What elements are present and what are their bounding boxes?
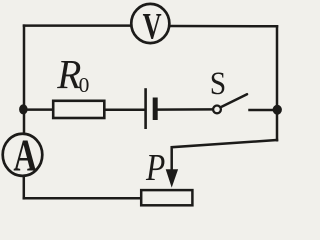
voltmeter circle <box>131 4 169 43</box>
junction dot left <box>19 104 28 114</box>
battery short thick plate <box>153 98 158 121</box>
wire R0 to battery <box>105 109 144 112</box>
wire bottom right sloped <box>172 140 277 172</box>
rheostat wiper arrowhead <box>166 169 178 187</box>
svg-text:V: V <box>143 5 162 47</box>
wire bottom horizontal <box>24 197 141 200</box>
wire right rail vertical <box>276 26 279 140</box>
switch lever <box>221 94 247 107</box>
junction dot right <box>273 105 282 115</box>
svg-text:P: P <box>145 146 165 188</box>
ammeter circle <box>3 134 43 176</box>
circuit schematic: voltmeter, R0, battery, switch S, ammeter, rheostat P <box>0 0 283 211</box>
wire left rail vertical <box>23 26 26 134</box>
svg-text:S: S <box>210 65 226 102</box>
svg-text:0: 0 <box>79 73 90 97</box>
resistor R0 box <box>53 101 104 118</box>
wire top left horizontal <box>24 24 131 27</box>
wire switch to right junction <box>250 109 278 112</box>
svg-text:A: A <box>13 130 37 180</box>
wire middle row: junction to R0 <box>24 108 54 111</box>
wire top right horizontal <box>171 25 277 28</box>
switch S pivot circle <box>213 106 221 114</box>
wire battery to switch <box>157 108 213 111</box>
rheostat P box <box>141 190 192 205</box>
battery long plate <box>144 88 147 129</box>
wire ammeter to bottom <box>23 176 26 198</box>
